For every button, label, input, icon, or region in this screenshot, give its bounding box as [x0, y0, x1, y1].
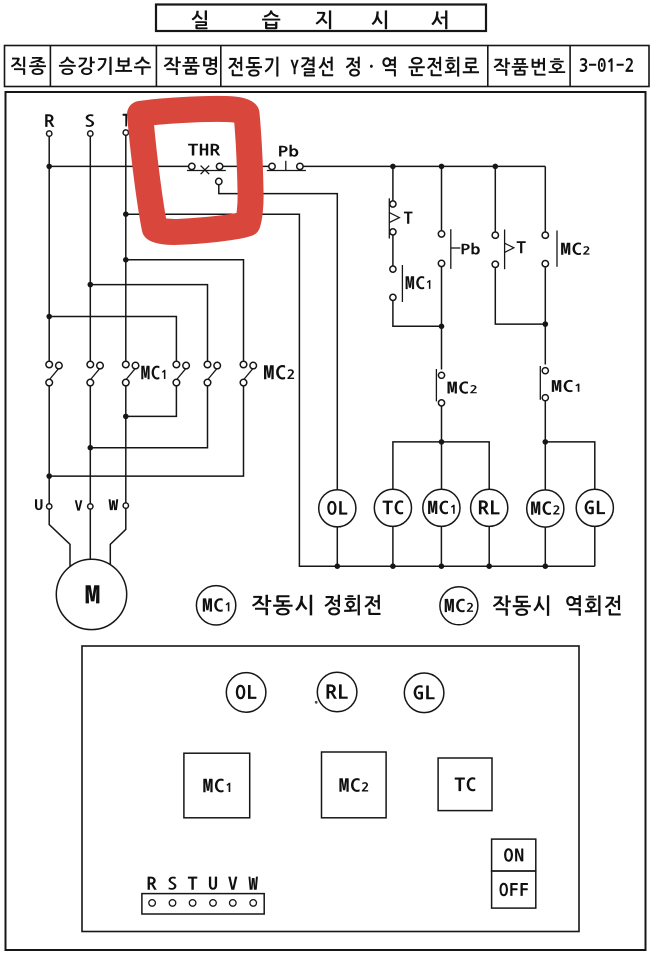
wire col3 top — [494, 166, 496, 232]
terminal strip hole U — [210, 900, 217, 907]
wire RL to bus — [488, 526, 490, 566]
aux contact MC2nc top terminal — [438, 372, 444, 378]
header cell 전동기 Y결선 정·역 운전회로 — [228, 57, 479, 77]
wire MC2 pole1 bottom to T — [126, 386, 177, 417]
wire col2 top — [441, 166, 443, 230]
node R join — [46, 473, 52, 479]
legend text 작동시 (MC2) — [493, 595, 549, 616]
label MC1 (coil) — [428, 501, 455, 515]
label terminal R — [148, 877, 157, 890]
pushbutton Pb bridge — [267, 170, 306, 172]
coil OL — [319, 490, 356, 527]
node bus MC2 — [543, 563, 549, 569]
contact MC1 pole R — [46, 361, 62, 386]
header table divider — [487, 46, 489, 87]
terminal strip hole R — [149, 900, 156, 907]
label Pb (supply) — [279, 145, 298, 157]
aux contact MC2no bar — [556, 231, 558, 267]
node branch Pb — [439, 164, 445, 170]
node bus TC — [390, 563, 396, 569]
label M — [86, 585, 100, 603]
node T control return — [123, 211, 129, 217]
label MC2 (legend) — [445, 599, 473, 613]
label MC2 (main contacts) — [264, 365, 294, 380]
label terminal W — [248, 877, 258, 890]
node branch T-timer — [390, 164, 396, 170]
legend circle MC1 — [196, 586, 235, 625]
label terminal V — [228, 877, 237, 890]
node R control tap — [46, 164, 52, 170]
coil MC1 — [423, 489, 460, 526]
header table divider — [220, 46, 222, 87]
panel lamp GL — [404, 673, 444, 713]
button ON box — [492, 839, 536, 871]
node col4 join — [543, 321, 549, 327]
wire MC2 coil to bus — [544, 527, 546, 566]
terminal strip — [142, 894, 264, 914]
lamp RL — [471, 489, 508, 526]
terminal S — [88, 131, 93, 136]
thermal relay THR cross mark — [201, 166, 210, 175]
label V — [75, 500, 83, 510]
label MC2 (self hold) — [561, 243, 589, 256]
legend circle MC2 — [440, 587, 478, 625]
terminal strip hole W — [250, 900, 257, 907]
aux contact MC1nc bar — [539, 366, 541, 400]
wire S to V — [89, 386, 91, 504]
label MC1 (interlock) — [552, 380, 580, 392]
label OL (coil) — [327, 501, 347, 515]
timed contact T1 top terminal — [390, 201, 396, 207]
label T2 — [517, 241, 526, 253]
pushbutton Pb right terminal — [297, 163, 303, 169]
coil TC — [374, 489, 411, 526]
header cell 3-01-2 — [580, 58, 633, 72]
label MC1 (main contacts) — [141, 366, 165, 380]
terminal W — [123, 503, 128, 508]
wire THR aux to OL — [219, 185, 337, 490]
thermal relay THR aux terminal — [216, 178, 222, 184]
node bus MC1 — [439, 563, 445, 569]
panel contactor MC2 — [322, 752, 387, 818]
contact MC2 pole 2 — [204, 361, 220, 386]
wire branch TC-RL — [393, 442, 489, 489]
wire branch GL — [545, 442, 595, 566]
label ON — [504, 848, 523, 861]
wire col1 top — [392, 166, 394, 201]
stray mark — [315, 701, 318, 704]
label MC1 (aux contact) — [406, 276, 431, 289]
red marker scribble around THR — [140, 109, 251, 232]
label GL (panel) — [414, 685, 435, 699]
node branch T2-timer — [493, 164, 499, 170]
label MC2 (coil) — [531, 501, 559, 515]
wire W to motor — [110, 508, 126, 566]
wire S to MC2 pole2 top — [90, 285, 207, 361]
wire U to motor — [49, 509, 70, 566]
aux contact MC1 top terminal — [390, 266, 396, 272]
terminal strip hole V — [230, 900, 237, 907]
aux contact MC1nc bottom terminal — [542, 395, 548, 401]
node T feed MC2-3 — [123, 257, 129, 263]
label terminal S — [169, 877, 177, 890]
label R — [45, 114, 54, 127]
wire T to MC2 pole3 top — [126, 260, 244, 361]
wire S vertical — [89, 136, 91, 360]
node bus OL — [335, 563, 341, 569]
wire V to motor — [89, 509, 91, 559]
lamp GL — [576, 489, 613, 526]
legend text 정회전 — [325, 595, 381, 616]
label MC2 (panel) — [339, 778, 368, 792]
header table outer — [5, 46, 650, 87]
wire MC2 pole2 bottom to S — [90, 386, 207, 448]
aux contact MC2nc bottom terminal — [438, 400, 444, 406]
label OL (panel) — [236, 685, 257, 699]
header table divider — [49, 46, 51, 87]
timed contact T2 bottom terminal — [492, 261, 498, 267]
label T — [123, 114, 130, 127]
wire MC2 pole3 bottom to R — [49, 386, 243, 476]
label T1 — [404, 212, 413, 224]
aux contact MC2no top terminal — [542, 232, 548, 238]
header table divider — [155, 46, 157, 87]
node S join — [88, 445, 94, 451]
node R feed MC2-1 — [46, 314, 52, 320]
wire MC2no down — [544, 267, 546, 365]
label Pb2 — [462, 243, 480, 255]
wire MC1nc to branch — [544, 401, 546, 490]
wire Pb2 down — [441, 267, 443, 370]
panel outline — [82, 646, 579, 932]
label OFF — [500, 883, 528, 896]
label GL (lamp) — [585, 500, 605, 514]
title char 지 — [316, 10, 332, 29]
aux contact MC1nc top terminal — [542, 368, 548, 374]
label RL (panel) — [327, 684, 348, 698]
coil MC2 — [527, 490, 564, 527]
pushbutton Pb left terminal — [269, 163, 275, 169]
node branch TC-RL — [439, 439, 445, 445]
label U — [35, 499, 43, 510]
label MC1 (panel) — [203, 779, 230, 793]
thermal relay THR contact right terminal — [216, 163, 222, 169]
wire THR to Pb — [223, 165, 269, 167]
aux contact MC2nc bar — [435, 369, 437, 401]
label RL (lamp) — [479, 500, 500, 514]
contact MC2 pole 3 — [240, 361, 256, 386]
header cell 작품명 — [164, 57, 217, 75]
node bus RL — [486, 563, 492, 569]
wire col3 to col4 — [495, 268, 545, 325]
contact MC1 pole T — [123, 361, 139, 386]
wire control bus top — [303, 165, 545, 167]
label TC (coil) — [383, 500, 404, 514]
terminal strip hole S — [169, 900, 176, 907]
panel lamp RL — [317, 672, 357, 712]
timed contact T1 bottom terminal — [390, 229, 396, 235]
wire col1 to col2 — [393, 301, 442, 327]
wire MC1 coil to bus — [440, 526, 442, 566]
terminal strip hole T — [189, 900, 196, 907]
terminal R — [47, 131, 52, 136]
wire control supply — [49, 165, 188, 167]
timed contact T1 delay triangle — [389, 213, 399, 223]
panel lamp OL — [226, 673, 266, 713]
header table divider — [569, 46, 571, 87]
timed contact T2 top terminal — [492, 232, 498, 238]
legend text 역회전 — [566, 595, 621, 616]
label TC (panel) — [455, 777, 476, 791]
wire T1 to MC1aux — [392, 235, 394, 266]
wire T to W — [125, 386, 127, 503]
pushbutton Pb2 top terminal — [438, 231, 444, 237]
wire OL to bus — [336, 527, 338, 566]
wire T vertical — [125, 135, 127, 360]
pushbutton Pb2 tick — [451, 247, 461, 249]
pushbutton Pb2 bottom terminal — [438, 260, 444, 266]
node S feed MC2-2 — [88, 282, 94, 288]
aux contact MC1 bar — [401, 265, 403, 302]
wire R to MC2 pole1 top — [49, 317, 176, 361]
node col2 join — [439, 324, 445, 330]
pushbutton Pb stem — [285, 161, 287, 171]
aux contact MC2no bottom terminal — [542, 261, 548, 267]
label W — [109, 499, 119, 510]
wire col4 top — [544, 166, 546, 232]
motor M — [56, 559, 126, 629]
wire R to U — [48, 386, 50, 504]
timed contact T2 delay triangle — [505, 243, 514, 252]
legend text 작동시 (MC1) — [252, 595, 312, 616]
aux contact MC1 bottom terminal — [390, 294, 396, 300]
terminal T — [123, 130, 128, 135]
label THR — [188, 144, 220, 156]
thermal relay THR contact left terminal — [189, 163, 195, 169]
timed contact T1 bar — [388, 198, 390, 238]
contact MC1 pole S — [87, 361, 103, 386]
panel timer TC — [438, 758, 492, 811]
title char 실 — [192, 10, 208, 29]
panel contactor MC1 — [184, 753, 250, 818]
header cell 작품번호 — [494, 58, 566, 76]
wire MC2nc to branch — [441, 406, 443, 489]
title char 서 — [431, 10, 447, 29]
thermal relay THR bridge — [187, 170, 226, 172]
label terminal T — [188, 877, 197, 890]
timed contact T2 bar — [504, 230, 506, 270]
title char 습 — [262, 10, 280, 29]
wire control return — [126, 214, 595, 566]
node branch GL — [543, 439, 549, 445]
label MC2 (interlock) — [448, 381, 477, 393]
header cell 직종 — [11, 57, 46, 75]
wire R vertical — [48, 136, 50, 360]
pushbutton Pb2 bar — [450, 229, 452, 269]
contact MC2 pole 1 — [173, 361, 189, 386]
header cell 승강기보수 — [59, 57, 151, 75]
title char 시 — [372, 10, 387, 29]
terminal V — [88, 504, 93, 509]
title box — [156, 5, 486, 32]
node T join — [123, 414, 129, 420]
terminal U — [47, 504, 52, 509]
wire TC to bus — [392, 526, 394, 566]
button OFF box — [492, 871, 536, 908]
label S — [86, 114, 94, 127]
label MC1 (legend) — [203, 598, 230, 612]
label terminal U — [209, 877, 217, 890]
